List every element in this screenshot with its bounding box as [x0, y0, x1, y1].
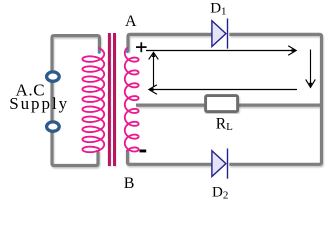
wire: secondary top rail (A to D1) [128, 34, 212, 51]
svg-text:B: B [124, 175, 135, 192]
diode D1 [212, 19, 228, 49]
primary winding coil [82, 48, 104, 152]
terminal bottom [47, 122, 60, 131]
svg-text:Supply: Supply [9, 94, 69, 113]
current arrow right (down) [306, 50, 316, 88]
node dot primary top [98, 51, 101, 54]
wire: top rail D1 to right rail, down, bottom rail to D2 [229, 34, 321, 164]
node dot secondary top [126, 50, 129, 53]
wire: primary-side loop (A.C supply to primary winding) [52, 36, 99, 166]
minus sign [140, 150, 147, 153]
diode D2 [212, 149, 228, 179]
current arrow bottom (left) [149, 85, 297, 95]
transformer core [109, 33, 114, 166]
wire: center tap to load [136, 103, 320, 106]
svg-text:A: A [125, 13, 137, 30]
plus sign [136, 42, 147, 52]
wire: bottom rail D2 to B stub [128, 150, 213, 164]
secondary winding coil [125, 48, 139, 152]
current arrow left (up) [149, 52, 159, 87]
load resistor RL [206, 96, 238, 112]
terminal top [47, 72, 60, 81]
current arrow top (right) [146, 46, 296, 56]
